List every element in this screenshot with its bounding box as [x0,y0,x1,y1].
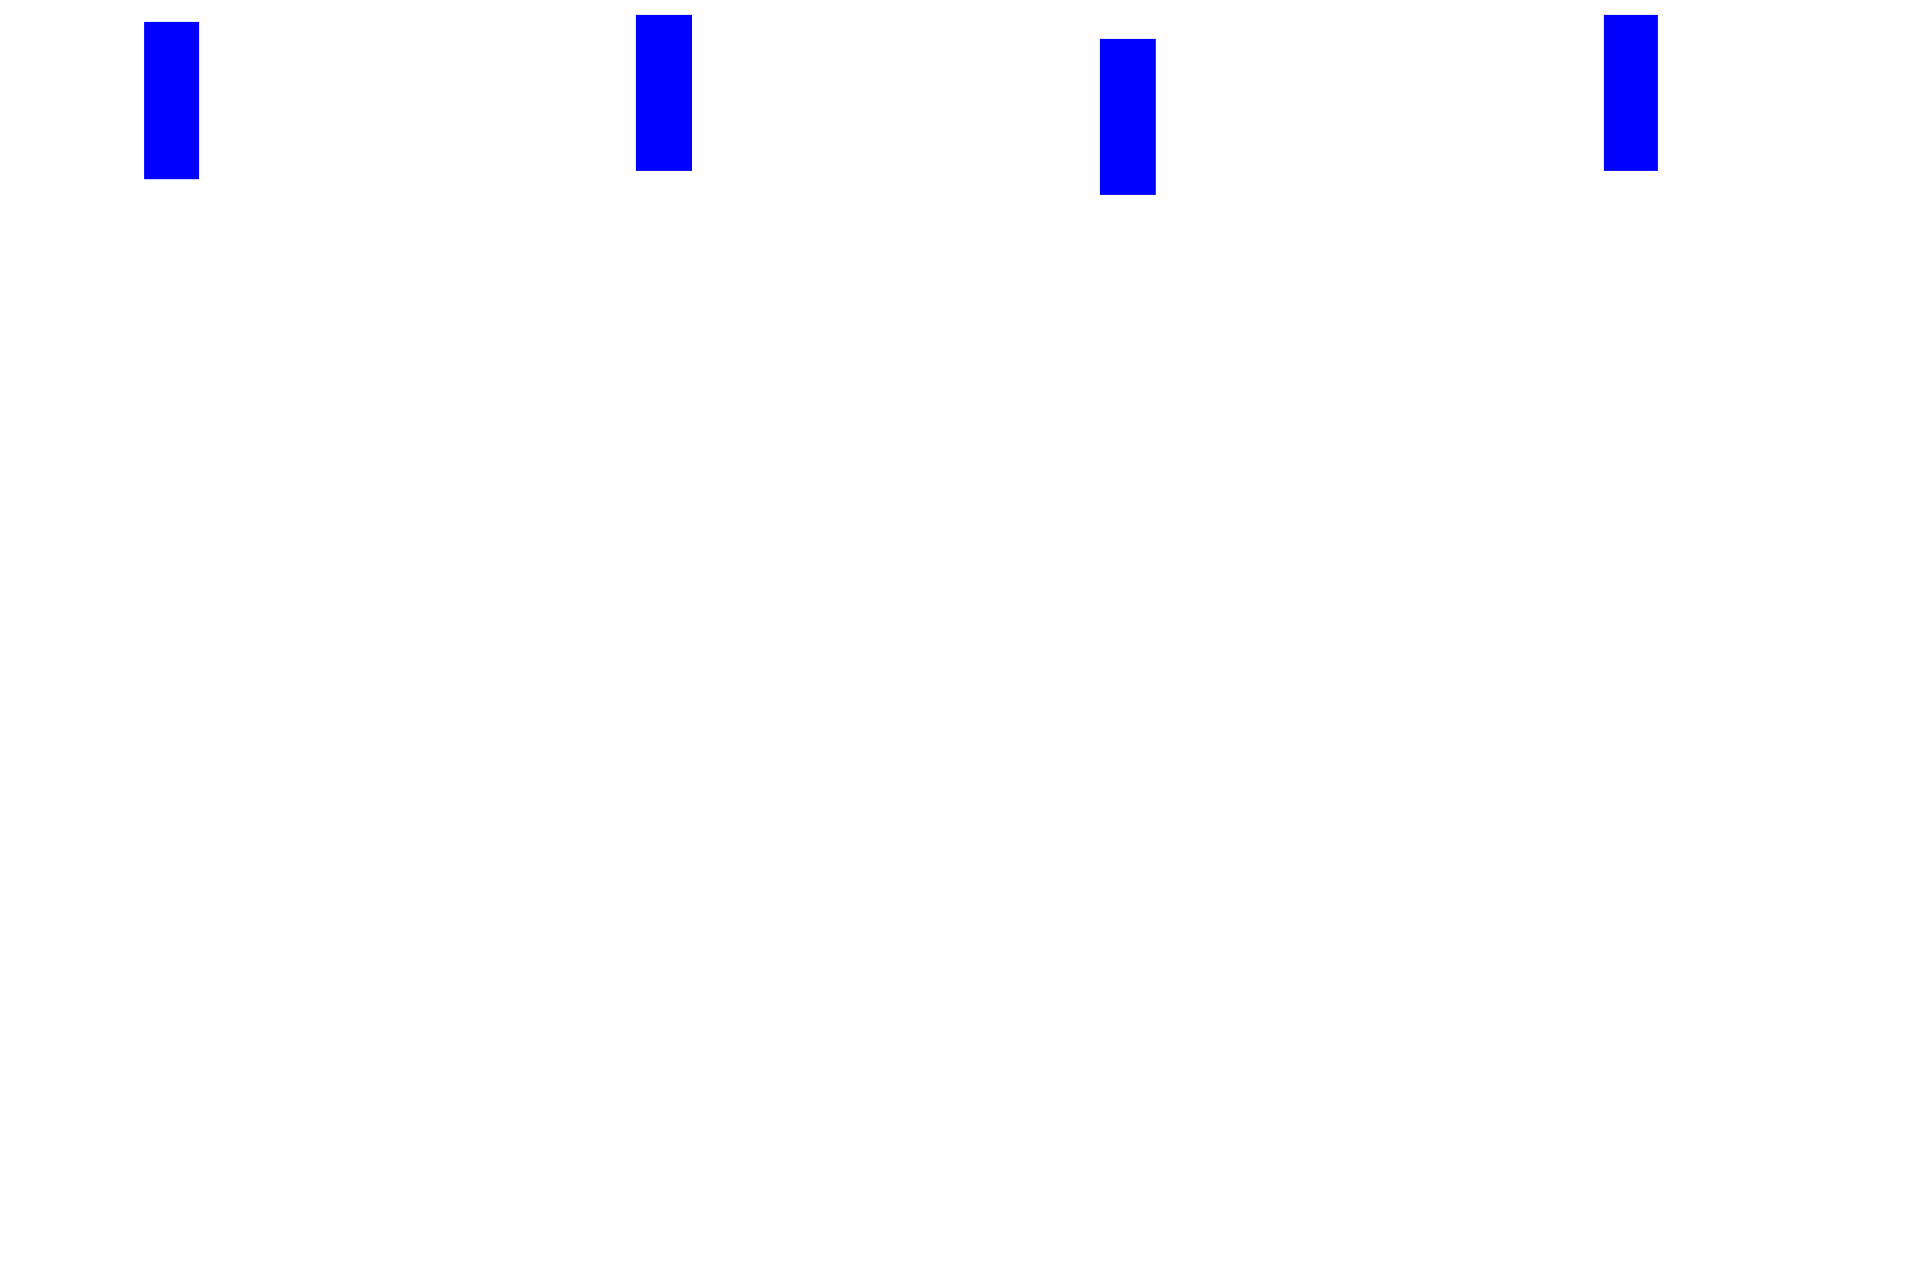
bar 4 [1604,15,1658,171]
bar 3 [1100,39,1156,195]
bar 1 [144,22,199,179]
bar 2 [636,15,692,171]
